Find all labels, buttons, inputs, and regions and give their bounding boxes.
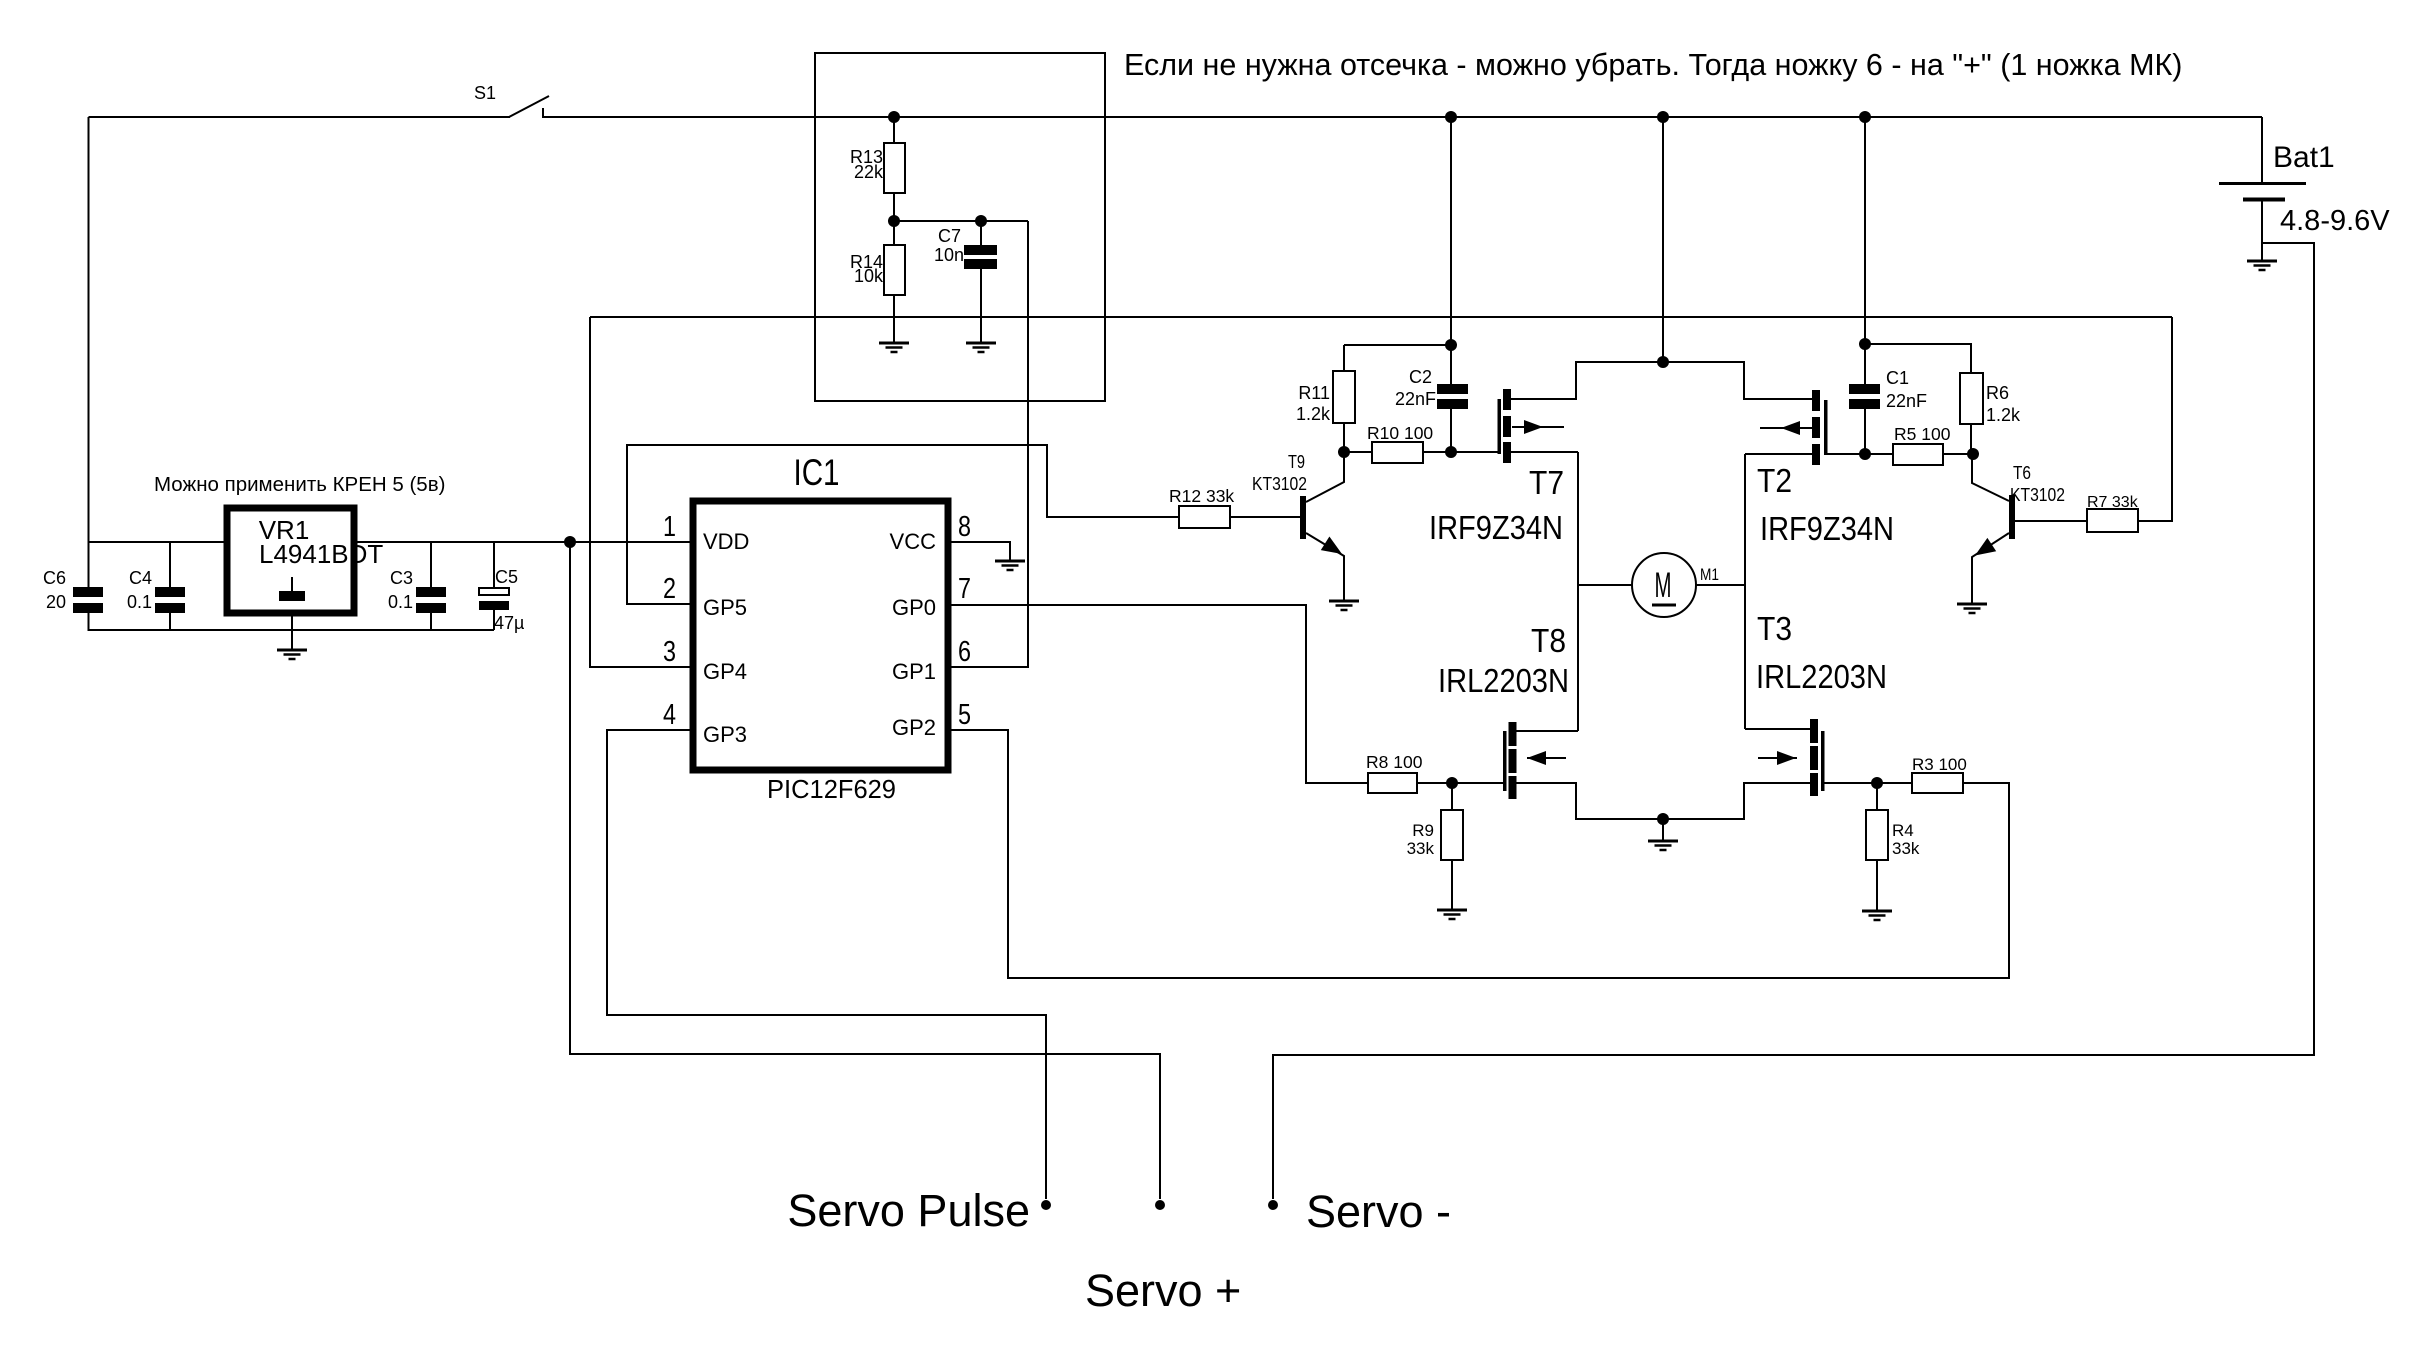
svg-text:4: 4 xyxy=(663,699,676,731)
svg-text:3: 3 xyxy=(663,636,676,668)
svg-text:IRF9Z34N: IRF9Z34N xyxy=(1429,509,1563,546)
svg-text:GP0: GP0 xyxy=(892,595,936,620)
svg-text:R11: R11 xyxy=(1298,383,1330,403)
svg-text:VCC: VCC xyxy=(890,529,937,554)
svg-text:1.2k: 1.2k xyxy=(1986,405,2021,425)
svg-text:VDD: VDD xyxy=(703,529,749,554)
svg-text:22nF: 22nF xyxy=(1886,391,1927,411)
svg-text:33k: 33k xyxy=(1892,839,1920,858)
svg-text:IRL2203N: IRL2203N xyxy=(1438,662,1569,699)
svg-text:6: 6 xyxy=(958,636,971,668)
svg-text:Можно применить КРЕН 5 (5в): Можно применить КРЕН 5 (5в) xyxy=(154,473,445,496)
svg-text:R6: R6 xyxy=(1986,383,2009,403)
svg-text:4.8-9.6V: 4.8-9.6V xyxy=(2280,205,2390,237)
svg-text:GP4: GP4 xyxy=(703,659,747,684)
svg-text:Servo +: Servo + xyxy=(1085,1265,1241,1316)
svg-text:S1: S1 xyxy=(474,83,496,103)
svg-text:C1: C1 xyxy=(1886,368,1909,388)
svg-text:R4: R4 xyxy=(1892,821,1914,840)
svg-text:R5 100: R5 100 xyxy=(1894,424,1951,444)
svg-text:T8: T8 xyxy=(1531,622,1566,659)
svg-text:22k: 22k xyxy=(854,162,884,182)
svg-text:R3 100: R3 100 xyxy=(1912,755,1967,774)
svg-text:10n: 10n xyxy=(934,245,964,265)
svg-text:10k: 10k xyxy=(854,266,884,286)
svg-text:Servo -: Servo - xyxy=(1306,1186,1451,1237)
svg-text:IRL2203N: IRL2203N xyxy=(1756,658,1887,695)
svg-text:1: 1 xyxy=(663,511,676,543)
svg-text:IRF9Z34N: IRF9Z34N xyxy=(1760,510,1894,547)
svg-text:7: 7 xyxy=(958,573,971,605)
svg-text:M: M xyxy=(1655,566,1672,605)
svg-text:T9: T9 xyxy=(1288,451,1305,472)
svg-text:Если не нужна отсечка - можно: Если не нужна отсечка - можно убрать. То… xyxy=(1124,48,2182,82)
svg-text:C3: C3 xyxy=(390,568,413,588)
svg-text:R8 100: R8 100 xyxy=(1366,752,1423,772)
svg-text:PIC12F629: PIC12F629 xyxy=(767,776,896,804)
svg-text:KT3102: KT3102 xyxy=(2010,484,2065,505)
svg-text:Servo Pulse: Servo Pulse xyxy=(787,1185,1030,1236)
svg-text:47µ: 47µ xyxy=(494,613,524,633)
svg-text:T7: T7 xyxy=(1529,464,1564,501)
svg-text:0.1: 0.1 xyxy=(127,592,152,612)
svg-text:C6: C6 xyxy=(43,568,66,588)
svg-text:8: 8 xyxy=(958,511,971,543)
svg-text:R12 33k: R12 33k xyxy=(1169,486,1234,506)
svg-text:GP2: GP2 xyxy=(892,715,936,740)
svg-text:5: 5 xyxy=(958,699,971,731)
svg-text:T2: T2 xyxy=(1757,462,1792,499)
svg-text:2: 2 xyxy=(663,573,676,605)
svg-text:L4941BDT: L4941BDT xyxy=(259,539,383,569)
svg-text:M1: M1 xyxy=(1700,565,1719,584)
svg-text:22nF: 22nF xyxy=(1395,389,1436,409)
svg-text:GP5: GP5 xyxy=(703,595,747,620)
svg-text:GP1: GP1 xyxy=(892,659,936,684)
svg-text:C5: C5 xyxy=(495,567,518,587)
svg-text:T6: T6 xyxy=(2013,462,2031,483)
svg-text:R9: R9 xyxy=(1412,821,1434,840)
svg-text:Bat1: Bat1 xyxy=(2273,141,2335,174)
svg-text:33k: 33k xyxy=(1407,839,1435,858)
svg-text:IC1: IC1 xyxy=(794,452,840,493)
svg-text:0.1: 0.1 xyxy=(388,592,413,612)
svg-text:R10 100: R10 100 xyxy=(1367,423,1433,443)
svg-text:KT3102: KT3102 xyxy=(1252,473,1307,494)
svg-text:1.2k: 1.2k xyxy=(1296,404,1331,424)
svg-text:GP3: GP3 xyxy=(703,722,747,747)
svg-text:C7: C7 xyxy=(938,226,961,246)
svg-text:R7 33k: R7 33k xyxy=(2087,494,2139,511)
svg-text:T3: T3 xyxy=(1757,610,1792,647)
svg-text:C2: C2 xyxy=(1409,367,1432,387)
svg-text:20: 20 xyxy=(46,592,66,612)
svg-text:C4: C4 xyxy=(129,568,152,588)
